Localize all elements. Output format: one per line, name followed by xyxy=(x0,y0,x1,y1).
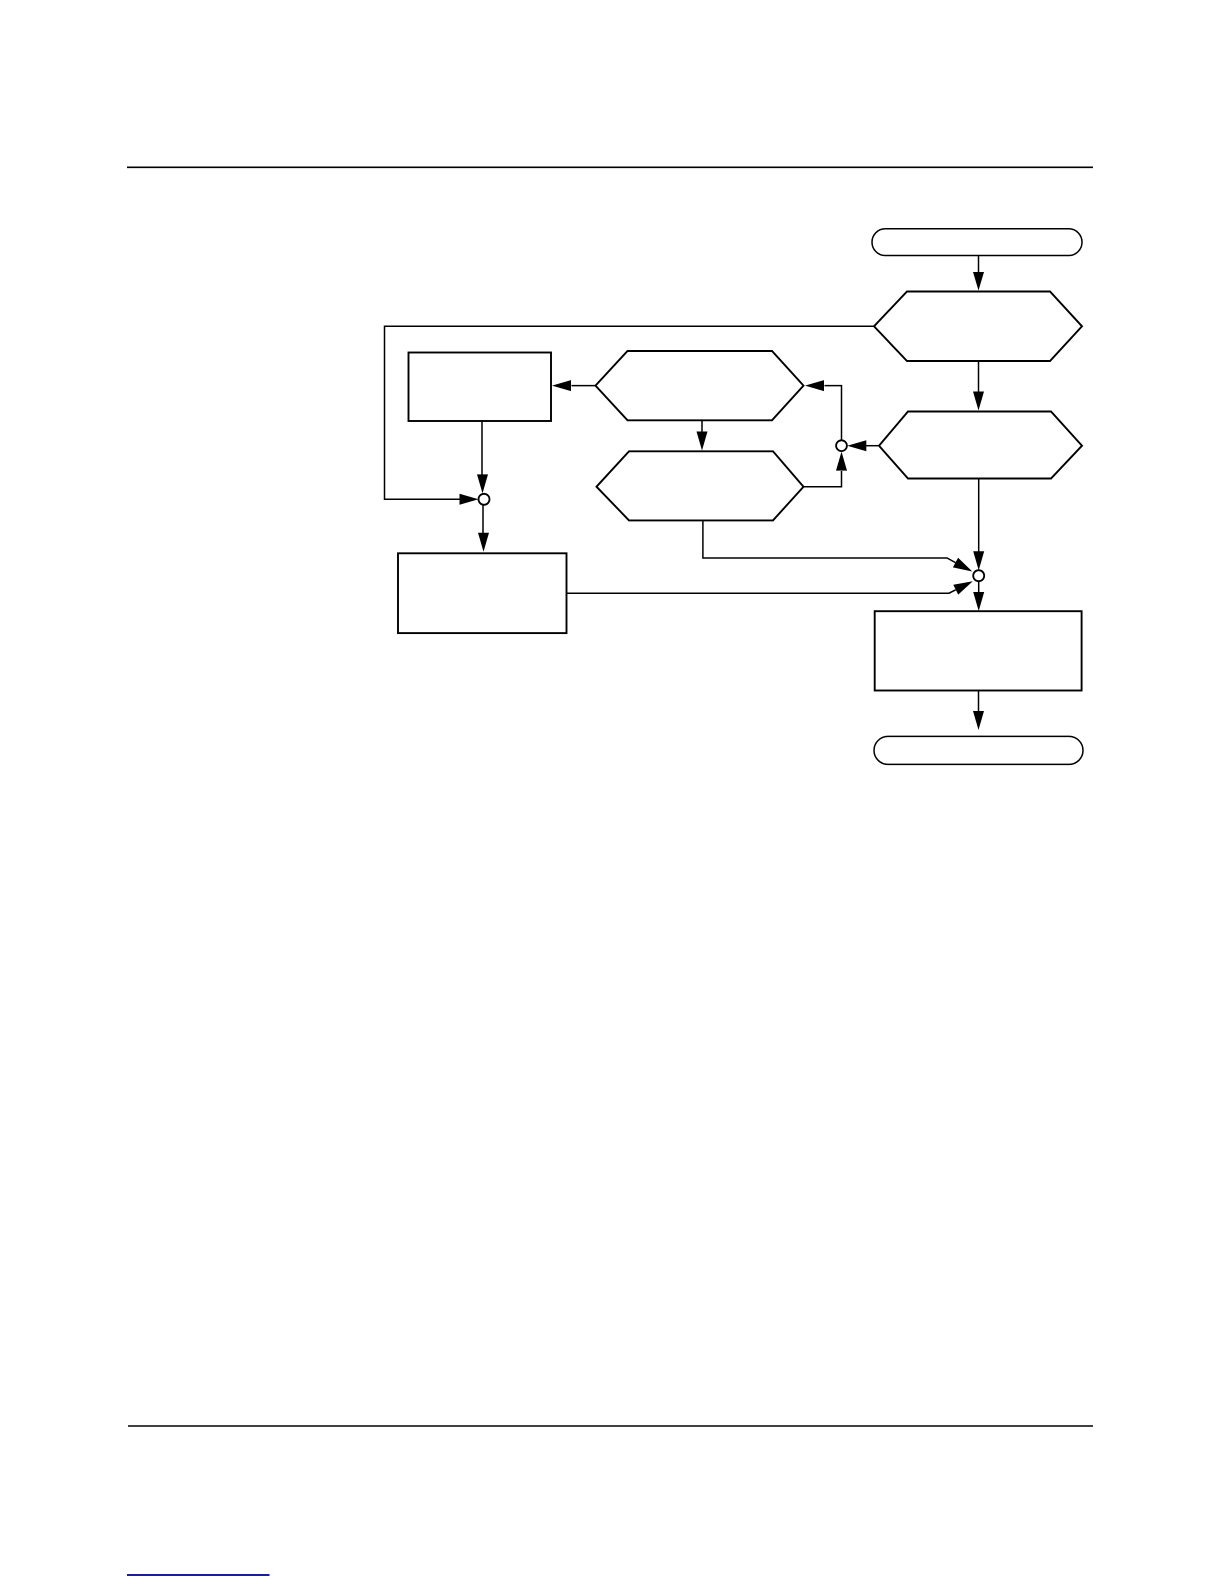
process P1 (top-left rectangle) xyxy=(409,353,552,422)
terminator END xyxy=(874,736,1083,764)
arrow D2 to junction J1 xyxy=(847,440,879,451)
arrow D1 to D2 xyxy=(973,361,984,411)
arrow D2 to junction J3 xyxy=(973,479,984,571)
arrow START to D1 xyxy=(973,256,984,291)
decision D3 (middle hexagon) xyxy=(596,351,804,420)
process P2 (bottom-left rectangle) xyxy=(398,553,567,633)
junction J3 (circle) xyxy=(973,570,984,581)
arrow D3 to D4 xyxy=(697,420,708,450)
junction J2 (circle) xyxy=(479,494,490,505)
decision D1 (top-right hexagon) xyxy=(874,292,1082,362)
arrow P1 to junction J2 xyxy=(477,421,488,493)
wire P2 to junction J3 xyxy=(567,581,973,594)
process P3 (bottom-right rectangle) xyxy=(875,611,1082,690)
wire D4 to junction J3 xyxy=(703,520,972,571)
arrow J3 to P3 xyxy=(973,581,984,611)
arrow J2 to P2 xyxy=(478,505,489,552)
arrow P3 to END xyxy=(973,691,984,731)
junction J1 (circle) xyxy=(836,440,847,451)
wire D1 feedback loop to junction J2 xyxy=(385,326,875,505)
arrow D3 to P1 xyxy=(552,380,596,391)
terminator START xyxy=(872,229,1082,256)
header rule xyxy=(127,166,1093,168)
wire D4 to junction J1 xyxy=(804,452,848,487)
footer rule xyxy=(128,1425,1093,1427)
decision D4 (lower middle hexagon) xyxy=(597,451,804,520)
footer link underline xyxy=(127,1574,270,1576)
decision D2 (right middle hexagon) xyxy=(879,412,1082,479)
wire junction J1 up to D3 xyxy=(805,380,842,440)
